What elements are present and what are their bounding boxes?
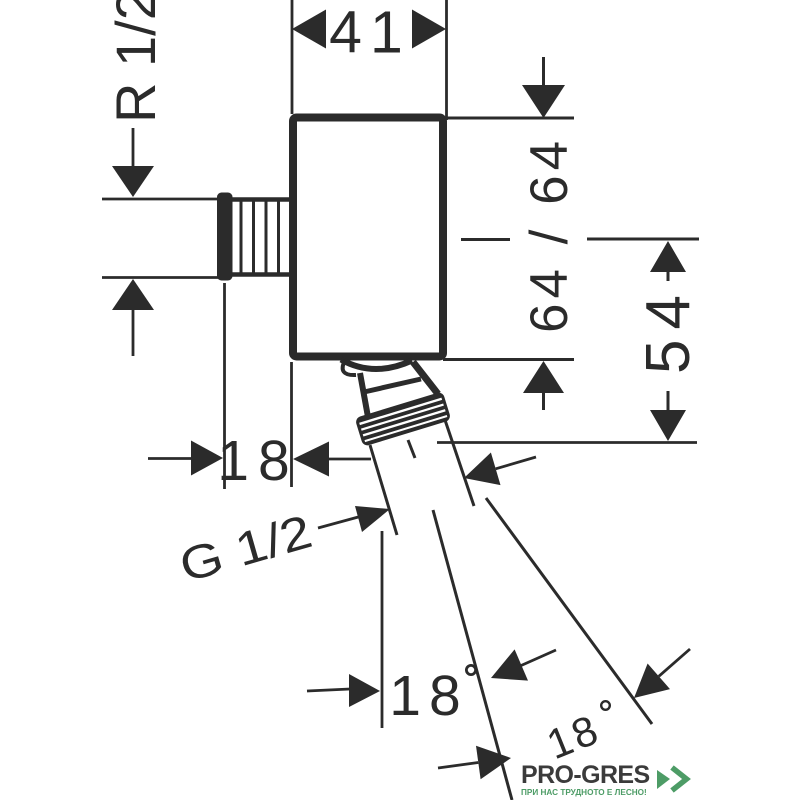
label G 1/2 arrowhead (355, 506, 390, 532)
svg-text:ПРИ НАС ТРУДНОТО Е ЛЕСНО!: ПРИ НАС ТРУДНОТО Е ЛЕСНО! (521, 788, 647, 797)
dim 64/64 top arrow (542, 57, 545, 86)
dim 18 extension line 1 (223, 283, 226, 489)
svg-text:41: 41 (329, 0, 411, 66)
connector cap (217, 193, 233, 281)
dim 54 bottom reference line (437, 441, 697, 444)
connector thread lines (240, 201, 243, 273)
dim 18 extension line 2 (290, 362, 293, 487)
dim R 1/2 upper arrow (132, 128, 135, 168)
svg-text:PRO-GRES: PRO-GRES (521, 761, 650, 789)
connector thread block top edge (230, 197, 293, 202)
outlet neck sag arc (341, 360, 412, 370)
dim 18 right arrow (293, 442, 329, 477)
dim 54 bottom arrow (667, 391, 670, 410)
dim 41 arrow right (412, 10, 446, 49)
svg-text:64 / 64: 64 / 64 (520, 136, 579, 333)
angle dim 18deg second: lower-left arrow (438, 763, 478, 769)
dim 64/64 top reference line (447, 117, 574, 120)
outlet neck right edge (413, 362, 438, 394)
dim 41 extension line right (445, 0, 448, 120)
connector thread block bottom edge (230, 272, 293, 277)
outlet neck cross line (364, 379, 421, 392)
dim 64/64 bottom reference line (443, 358, 574, 361)
dim R 1/2 upper reference line (102, 198, 223, 201)
angle dim 18deg first: degree circle (466, 665, 475, 674)
angle dim 18deg first: right arrow (491, 649, 528, 680)
outlet neck hook (343, 360, 356, 375)
spray cone line B (445, 420, 474, 506)
angle dim 18deg first: left arrow (307, 689, 350, 691)
dim 41 arrow left (292, 10, 326, 49)
outlet collar nut (355, 391, 452, 447)
dim 64/64 bottom arrow (523, 361, 564, 393)
outlet neck left edge (360, 373, 368, 417)
spray axis line 18deg (433, 510, 512, 800)
dim R 1/2 lower reference line (102, 276, 221, 279)
label G 1/2 leader (318, 516, 362, 528)
vertical reference line (381, 531, 384, 728)
dim 64/64 mid tick left (461, 238, 510, 241)
dim 41 extension line left (291, 0, 294, 114)
angle dim 18deg second: right arrow (634, 664, 670, 699)
dim R 1/2 lower arrow (112, 279, 154, 310)
angle dim 18deg second: upper arrow (464, 453, 501, 486)
body outline (293, 118, 443, 357)
svg-text:18: 18 (217, 429, 298, 493)
dim 54 top arrow (650, 241, 686, 272)
spray cone line A (370, 445, 397, 535)
logo green chevron (672, 768, 687, 791)
dim 18 left arrow (191, 441, 223, 476)
spray cone middle stub (408, 440, 415, 458)
svg-text:54: 54 (634, 285, 703, 374)
angle dim 18deg second: degree circle (601, 701, 610, 710)
logo green arrow (657, 770, 670, 789)
svg-text:R 1/2: R 1/2 (104, 0, 167, 123)
dim 64/64 mid tick right (587, 238, 699, 241)
spray outer line 36deg (486, 498, 652, 724)
dim 18 left tail (148, 457, 192, 460)
svg-text:18: 18 (389, 664, 468, 728)
